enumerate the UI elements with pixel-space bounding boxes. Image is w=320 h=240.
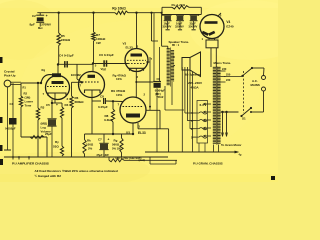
svg-text:Mains Trans.: Mains Trans. — [214, 61, 232, 65]
output tube V3 EL33 — [118, 93, 147, 124]
capacitor C4 0.01uF — [59, 54, 74, 68]
scan smudge left edge — [0, 57, 275, 180]
capacitor C8 0.05uF — [92, 95, 123, 110]
label Rg top — [42, 68, 46, 72]
wire gram chassis rail — [145, 143, 242, 157]
svg-text:220kΩ: 220kΩ — [61, 38, 71, 42]
label Va — [101, 67, 107, 71]
svg-text:+: + — [162, 13, 164, 17]
svg-text:R4: R4 — [65, 103, 69, 107]
wire speaker leads — [182, 67, 196, 152]
svg-text:250: 250 — [226, 73, 231, 77]
wire V3 step — [138, 110, 169, 152]
resistor R7 100k — [92, 13, 106, 64]
svg-text:P.U GRAM. CHASSIS: P.U GRAM. CHASSIS — [193, 162, 223, 166]
speaker transformer T1 — [167, 40, 190, 87]
svg-text:0·05μF: 0·05μF — [98, 105, 108, 109]
wire tone network — [21, 136, 47, 158]
svg-text:230: 230 — [222, 67, 227, 71]
svg-text:5% 1W: 5% 1W — [112, 147, 121, 151]
svg-text:1W: 1W — [96, 41, 101, 45]
svg-text:ECC82: ECC82 — [71, 73, 81, 77]
svg-text:C5: C5 — [46, 103, 50, 107]
svg-text:Rp 10kΩ: Rp 10kΩ — [112, 6, 126, 10]
wire V2 grid — [77, 65, 83, 84]
svg-text:10%: 10% — [116, 93, 122, 97]
wire speaker secondary bottom — [173, 65, 175, 67]
resistor Rp 10k — [112, 6, 161, 14]
label Rg 470k upper — [113, 74, 127, 82]
svg-text:C8: C8 — [100, 95, 104, 99]
svg-text:C4 0·01μF: C4 0·01μF — [59, 54, 74, 58]
svg-text:+: + — [46, 14, 48, 18]
wire V3a anode — [135, 12, 137, 49]
capacitor C7 25uF — [97, 134, 110, 157]
svg-text:3·3kΩ: 3·3kΩ — [104, 118, 113, 122]
svg-text:Met: Met — [38, 26, 43, 30]
svg-text:TRA2: TRA2 — [156, 95, 164, 99]
resistor R8 3.3k — [104, 101, 115, 134]
capacitor 0.004uF — [153, 13, 165, 152]
wire HT drop B — [161, 12, 168, 49]
connector P1 — [191, 101, 208, 144]
chassis ticks — [12, 156, 30, 159]
switch link dashed — [243, 71, 245, 113]
label 6.3v — [200, 103, 207, 107]
resistor Rs 1.2k — [162, 3, 201, 14]
wire V2 cathode — [91, 97, 93, 134]
resistor Rw 4.7k — [109, 156, 177, 162]
resistor Rk2 53ohm — [53, 140, 64, 156]
svg-text:To Gram Motor: To Gram Motor — [221, 143, 242, 147]
label ECC82 — [71, 73, 81, 77]
paper background — [0, 0, 278, 182]
rectifier tube V4 — [200, 13, 234, 41]
label gram chassis — [193, 162, 223, 166]
heater taps left — [204, 103, 212, 137]
svg-text:+: + — [198, 13, 200, 17]
note ganged — [35, 174, 62, 178]
svg-text:Pick-Up: Pick-Up — [4, 74, 16, 78]
svg-text:53Ω: 53Ω — [53, 145, 59, 149]
label V3 EL33 — [126, 131, 146, 135]
svg-text:C6 0·01μF: C6 0·01μF — [99, 53, 114, 57]
svg-text:320WV: 320WV — [175, 25, 184, 29]
svg-text:Ry: Ry — [55, 140, 59, 144]
switch S1 lower pole — [240, 107, 252, 121]
wire coupling bus — [58, 63, 128, 66]
capacitor C11 32uF — [189, 13, 200, 29]
output tube V3a — [123, 41, 153, 79]
wire HT drop A — [150, 12, 158, 41]
svg-text:EL33: EL33 — [138, 131, 146, 135]
svg-text:6·3 v: 6·3 v — [200, 103, 207, 107]
wire HT+ top rail — [37, 12, 115, 14]
svg-text:270WV: 270WV — [41, 22, 51, 26]
svg-text:S1: S1 — [242, 117, 246, 121]
wire speaker secondary top — [173, 56, 175, 58]
wire V3a cathode — [135, 68, 153, 97]
svg-text:EZ40: EZ40 — [226, 25, 234, 29]
tube V1 EF37 — [43, 76, 70, 104]
AC mains plug — [251, 76, 266, 92]
node V1 anode — [57, 63, 59, 65]
wire V3 cathode bus — [85, 123, 135, 135]
label R9 — [111, 89, 126, 97]
paper mottling — [0, 0, 310, 188]
svg-text:220: 220 — [226, 78, 231, 82]
svg-text:0·002μF: 0·002μF — [5, 127, 16, 131]
wire filter cap bus — [162, 14, 201, 16]
svg-text:C2: C2 — [32, 14, 36, 18]
loudspeaker 3ohm — [182, 52, 203, 90]
potentiometer R2 tone — [19, 83, 34, 137]
svg-text:8μF: 8μF — [30, 22, 36, 26]
svg-text:MAINS: MAINS — [251, 83, 260, 87]
wire side drop — [149, 57, 151, 110]
svg-text:680kΩ: 680kΩ — [75, 100, 85, 104]
switch S1 upper pole — [224, 67, 253, 77]
wire to gram motor — [221, 111, 239, 137]
svg-text:C7: C7 — [98, 138, 102, 142]
svg-text:¼ Ganged with R2: ¼ Ganged with R2 — [35, 174, 62, 178]
svg-text:V(g): V(g) — [101, 67, 107, 71]
heater connector V4 — [206, 38, 218, 68]
resistor R4 — [60, 103, 68, 146]
capacitor C10 16uF — [175, 15, 184, 30]
svg-text:C3: C3 — [10, 102, 14, 106]
wire mains plug — [250, 68, 264, 113]
capacitor C6 0.01uF — [99, 53, 114, 67]
svg-text:+: + — [108, 138, 110, 142]
svg-text:EL33: EL33 — [126, 45, 134, 49]
svg-text:(out): (out) — [139, 158, 145, 162]
svg-text:320WV: 320WV — [163, 25, 172, 29]
svg-text:560Ω: 560Ω — [112, 143, 120, 147]
svg-text:P.U AMPLIFIER CHASSIS: P.U AMPLIFIER CHASSIS — [12, 161, 49, 165]
resistor R5 220k — [57, 13, 71, 65]
grid top-cap V1 — [41, 73, 61, 83]
capacitor C5 25uF — [45, 103, 58, 157]
capacitor C1 0.002uF — [5, 83, 17, 157]
svg-text:10%: 10% — [116, 77, 122, 81]
note resistors — [35, 169, 118, 173]
label amplifier chassis — [12, 161, 49, 165]
resistor Rk 100ohm — [83, 134, 94, 157]
svg-text:C8: C8 — [157, 77, 161, 81]
node rail-R7 — [92, 12, 94, 14]
svg-text:25μF: 25μF — [45, 132, 52, 136]
label out — [139, 157, 177, 164]
svg-text:All fixed Resistors ½Watt 20%: All fixed Resistors ½Watt 20% unless oth… — [35, 169, 118, 173]
svg-text:4μ: 4μ — [239, 154, 242, 157]
svg-text:R1: R1 — [23, 86, 27, 90]
svg-text:350WV: 350WV — [189, 25, 198, 29]
svg-text:45ΩA: 45ΩA — [191, 86, 200, 90]
wire V3 anode to transformer — [0, 0, 1, 1]
svg-text:85 : 1: 85 : 1 — [172, 43, 180, 47]
tube V2 — [79, 72, 105, 98]
wire V1 cathode — [51, 100, 62, 119]
svg-text:2%: 2% — [88, 147, 93, 151]
wire transformer returns — [165, 82, 184, 110]
wire V1 anode — [57, 65, 59, 77]
capacitor C9 16uF — [162, 13, 172, 29]
capacitor C2 8uF 270WV — [30, 13, 52, 30]
ground rail amplifier chassis — [4, 156, 168, 158]
node rail-R5 — [58, 12, 60, 14]
crystal pick-up — [4, 70, 21, 87]
svg-text:Tone: Tone — [25, 104, 32, 108]
wire V2 anode pin5 — [93, 64, 97, 73]
svg-text:V4: V4 — [226, 20, 230, 24]
wire input bus — [21, 82, 42, 84]
svg-text:25μF 12W: 25μF 12W — [97, 153, 110, 157]
label to gram motor — [221, 143, 242, 147]
svg-text:R3: R3 — [41, 106, 45, 110]
resistor R6 680k — [70, 82, 84, 157]
mains taps — [221, 67, 231, 82]
node V2 anode — [92, 62, 94, 64]
svg-text:Rg: Rg — [42, 68, 46, 72]
mains transformer T2 — [213, 61, 231, 145]
wire pickup ground — [4, 87, 11, 150]
svg-text:+: + — [56, 103, 58, 107]
potentiometer R3 volume — [36, 82, 51, 157]
svg-text:Rs 1·2kΩ: Rs 1·2kΩ — [172, 3, 186, 7]
resistor Rg 560ohm — [112, 134, 123, 157]
